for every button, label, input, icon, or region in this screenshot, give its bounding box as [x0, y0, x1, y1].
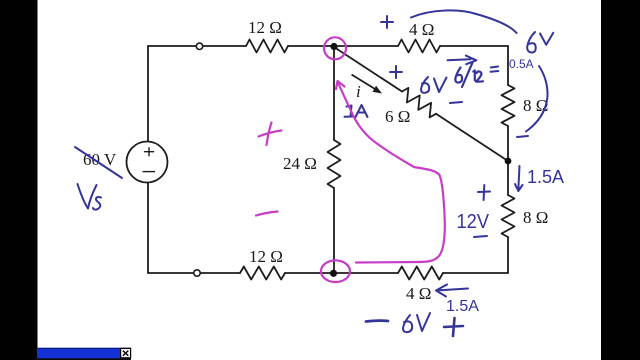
svg-text:12V: 12V — [457, 211, 490, 233]
magenta plus — [259, 123, 282, 146]
wire top: 12ohm to node A — [288, 45, 398, 47]
voltage source Vs circle — [127, 142, 168, 183]
wire diagonal upper segment — [334, 47, 402, 92]
magenta minus — [256, 212, 278, 216]
arrow for current i — [352, 75, 376, 90]
svg-text:8 Ω: 8 Ω — [523, 96, 548, 115]
resistor R 4ohm top — [398, 40, 440, 53]
svg-text:1.5A: 1.5A — [446, 298, 479, 315]
magenta circle around node A — [324, 37, 346, 59]
wire right side: corner to 8ohm — [507, 46, 509, 85]
wire top: left corner to 12ohm — [148, 45, 246, 47]
magenta loop curve — [338, 82, 445, 263]
blue 1A — [345, 105, 368, 117]
svg-text:8 Ω: 8 Ω — [523, 208, 548, 227]
letterbox right bar — [601, 0, 640, 360]
blue 6V bottom — [403, 313, 430, 332]
node C dot — [330, 270, 337, 277]
blue Vs — [78, 184, 102, 210]
svg-text:12 Ω: 12 Ω — [249, 247, 283, 266]
blue arrow right (6/12) — [448, 56, 477, 65]
blue minus below 12V — [474, 236, 487, 237]
svg-text:4 Ω: 4 Ω — [406, 284, 431, 303]
svg-text:6 Ω: 6 Ω — [385, 107, 410, 126]
svg-text:60 V: 60 V — [83, 150, 117, 169]
blue arc over 4ohm to 6V — [411, 10, 517, 33]
wire right side: lower 8ohm to corner — [507, 237, 509, 273]
svg-text:4 Ω: 4 Ω — [409, 20, 434, 39]
blue minus on diagonal — [450, 102, 462, 103]
blue minus bottom 6V — [366, 319, 388, 323]
blue 6/12= fraction — [455, 68, 462, 83]
wire left side upper — [147, 46, 149, 141]
source minus sign — [143, 171, 156, 173]
blue 6V mid — [421, 77, 447, 93]
wire bottom rail — [148, 272, 240, 274]
resistor R 8ohm lower right — [502, 195, 515, 237]
resistor R 24ohm middle — [328, 140, 341, 188]
blue left arrow 1.5A bottom — [436, 285, 468, 297]
resistor R 6ohm diagonal — [402, 88, 436, 118]
svg-text:i: i — [356, 82, 361, 101]
terminal circle bottom — [194, 270, 200, 276]
resistor R 12ohm bottom — [240, 267, 285, 280]
source plus sign — [143, 147, 156, 171]
wire bottom: 4ohm to right corner — [443, 272, 508, 274]
blue plus left of lower 8ohm — [478, 185, 490, 200]
taskbar dark under-edge — [37, 358, 131, 360]
wire middle vertical lower — [333, 188, 335, 273]
resistor R 12ohm top — [246, 40, 288, 53]
svg-text:12 Ω: 12 Ω — [248, 18, 282, 37]
wire diagonal lower segment — [436, 114, 508, 161]
resistor R 4ohm bottom — [398, 267, 443, 280]
blue text 6/12= — [455, 63, 498, 88]
resistor R 8ohm upper right — [502, 85, 515, 126]
node B dot — [505, 158, 512, 165]
magenta circle around node C — [321, 260, 350, 282]
wire middle vertical upper — [333, 47, 335, 141]
svg-text:1.5A: 1.5A — [527, 167, 564, 187]
wire left side lower — [147, 183, 149, 273]
wire bottom: 12ohm to 4ohm — [285, 272, 398, 274]
close button — [121, 348, 131, 357]
blue 6V top right — [527, 32, 553, 53]
taskbar blue bar — [37, 348, 131, 359]
wire right side: 8ohm to node B — [507, 126, 509, 195]
letterbox left bar — [0, 0, 38, 360]
node A dot — [330, 43, 337, 50]
svg-text:0.5A: 0.5A — [509, 57, 534, 71]
blue paren arc right of 8ohm — [526, 66, 548, 132]
wire top: 4ohm to top-right corner — [440, 45, 508, 47]
blue plus bottom 6V — [444, 318, 463, 336]
blue down arrow 1.5A — [515, 166, 523, 191]
close button x glyph — [123, 351, 128, 356]
blue plus on diagonal — [390, 66, 402, 78]
terminal circle top — [196, 43, 202, 49]
magenta loop arrowhead — [336, 81, 345, 89]
svg-text:24 Ω: 24 Ω — [283, 154, 317, 173]
blue plus above 4ohm — [381, 16, 393, 28]
blue minus below upper 8ohm — [517, 136, 528, 137]
blue slash through 60V — [75, 147, 122, 178]
